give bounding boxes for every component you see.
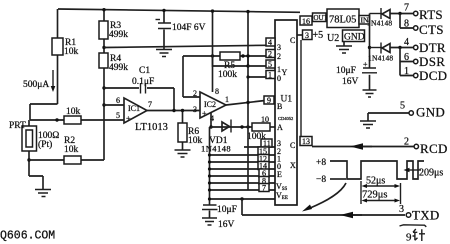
svg-text:+: +: [363, 60, 368, 69]
svg-text:13: 13: [302, 137, 310, 146]
svg-text:0: 0: [277, 74, 281, 83]
svg-text:U2: U2: [327, 33, 339, 44]
svg-text:500μA: 500μA: [23, 80, 49, 90]
svg-text:LT1013: LT1013: [135, 122, 168, 133]
svg-text:1N4148: 1N4148: [201, 144, 231, 154]
svg-text:TXD: TXD: [412, 208, 440, 223]
svg-text:1: 1: [225, 95, 229, 104]
svg-text:(Pt): (Pt): [38, 139, 52, 150]
svg-text:9: 9: [267, 96, 271, 105]
svg-text:2: 2: [404, 137, 409, 148]
svg-text:GND: GND: [416, 105, 445, 120]
svg-text:E: E: [277, 170, 282, 179]
svg-text:6: 6: [116, 96, 120, 105]
svg-text:2: 2: [193, 89, 197, 98]
svg-text:7: 7: [404, 3, 409, 14]
svg-text:16V: 16V: [342, 77, 359, 87]
svg-text:209μs: 209μs: [419, 168, 443, 179]
svg-text:B: B: [277, 102, 282, 111]
svg-text:6: 6: [404, 52, 409, 63]
svg-text:Y: Y: [282, 68, 288, 77]
svg-text:10k: 10k: [64, 47, 79, 57]
svg-text:52μs: 52μs: [366, 176, 385, 187]
svg-text:78L05: 78L05: [329, 15, 356, 26]
svg-text:+: +: [202, 109, 207, 118]
svg-text:PRT: PRT: [9, 121, 26, 131]
svg-text:RTS: RTS: [419, 7, 443, 22]
svg-text:4: 4: [404, 37, 409, 48]
svg-text:IC2: IC2: [204, 100, 216, 109]
svg-text:10k: 10k: [66, 107, 81, 117]
svg-text:RCD: RCD: [420, 141, 448, 156]
svg-text:10: 10: [261, 115, 269, 124]
svg-text:DSR: DSR: [419, 54, 445, 69]
svg-text:10k: 10k: [64, 145, 79, 155]
svg-text:0.1μF: 0.1μF: [132, 77, 154, 87]
svg-text:C: C: [290, 141, 295, 150]
svg-text:16: 16: [302, 17, 310, 26]
svg-text:8: 8: [215, 87, 219, 96]
svg-text:9: 9: [406, 232, 412, 244]
svg-text:1N4148: 1N4148: [367, 19, 392, 28]
svg-text:1: 1: [277, 65, 281, 74]
svg-text:10μF: 10μF: [217, 205, 237, 215]
svg-text:CTS: CTS: [419, 22, 444, 37]
svg-text:5: 5: [268, 60, 272, 69]
svg-text:Q606.COM: Q606.COM: [0, 230, 55, 243]
svg-text:2: 2: [277, 52, 281, 61]
svg-text:X: X: [290, 161, 296, 170]
svg-text:1: 1: [404, 66, 409, 77]
svg-text:7: 7: [148, 100, 152, 109]
svg-text:5: 5: [400, 101, 405, 112]
svg-text:DTR: DTR: [419, 40, 446, 55]
svg-text:499k: 499k: [109, 30, 128, 40]
svg-text:−8: −8: [316, 175, 326, 185]
svg-text:8: 8: [404, 19, 409, 30]
svg-text:3: 3: [277, 43, 281, 52]
svg-text:C1: C1: [139, 66, 150, 76]
svg-text:+: +: [126, 114, 131, 123]
svg-text:729μs: 729μs: [362, 190, 387, 201]
svg-text:+8: +8: [316, 158, 326, 168]
svg-text:DCD: DCD: [419, 68, 447, 83]
svg-text:104F 6V: 104F 6V: [172, 23, 206, 33]
svg-text:3: 3: [305, 31, 309, 40]
svg-text:C: C: [290, 36, 295, 45]
svg-text:1: 1: [268, 71, 272, 80]
svg-text:7: 7: [262, 184, 266, 193]
svg-text:IC1: IC1: [128, 104, 140, 113]
svg-text:A: A: [277, 123, 283, 132]
svg-text:+5: +5: [313, 30, 324, 41]
svg-text:499k: 499k: [109, 63, 128, 73]
svg-text:1N4148: 1N4148: [368, 54, 393, 63]
svg-text:CD4052: CD4052: [278, 116, 293, 121]
svg-text:5: 5: [116, 111, 120, 120]
svg-text:GND: GND: [344, 33, 365, 43]
svg-text:3: 3: [193, 105, 197, 114]
svg-text:4: 4: [268, 38, 272, 47]
svg-text:3: 3: [399, 204, 404, 215]
svg-text:100k: 100k: [218, 70, 237, 80]
svg-text:10μF: 10μF: [336, 66, 356, 76]
svg-text:16V: 16V: [218, 220, 235, 230]
svg-text:2: 2: [268, 50, 272, 59]
